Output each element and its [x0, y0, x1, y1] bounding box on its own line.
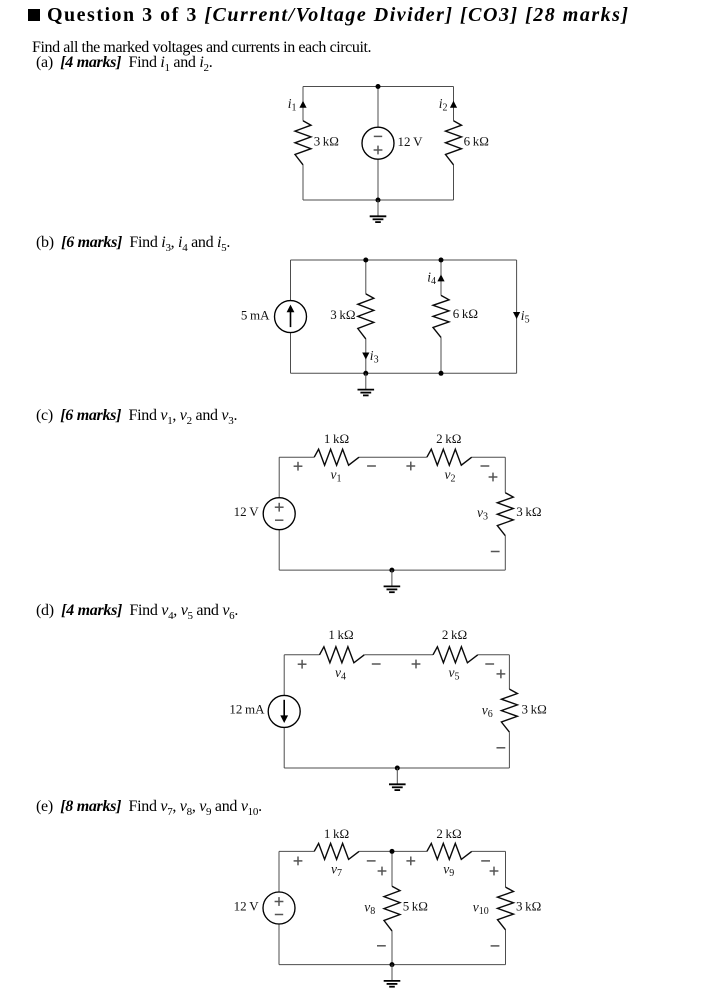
label 3 kOhm (e) [516, 898, 541, 913]
label 1 kOhm (d) [328, 627, 353, 642]
minus v2 [481, 465, 490, 467]
label 1 kOhm (c) [324, 431, 349, 446]
resistor 1 kOhm (e) [314, 843, 359, 859]
minus v1 [367, 465, 376, 467]
resistor 3 kOhm (c) [497, 493, 513, 536]
minus v8 [377, 945, 386, 947]
resistor 2 kOhm (c) [427, 449, 472, 465]
minus v10 [491, 945, 500, 947]
svg-text:6 kΩ: 6 kΩ [453, 306, 478, 321]
label i4 [427, 270, 436, 288]
minus v9 [481, 860, 490, 862]
svg-text:3 kΩ: 3 kΩ [330, 307, 355, 322]
wire bottom (c) [279, 569, 505, 571]
part (c) text [36, 407, 237, 427]
svg-text:v5: v5 [449, 665, 460, 683]
wire bottom (a) [303, 199, 454, 201]
svg-text:i2: i2 [439, 96, 448, 114]
current arrow i2 [450, 101, 457, 108]
plus v3 [489, 473, 498, 482]
resistor 6 kOhm (b) [433, 295, 449, 337]
svg-text:2 kΩ: 2 kΩ [436, 431, 461, 446]
label 2 kOhm (c) [436, 431, 461, 446]
svg-text:12 mA: 12 mA [229, 701, 265, 716]
label v9 [443, 861, 454, 879]
current arrow i1 [299, 101, 306, 108]
svg-text:v10: v10 [473, 899, 489, 917]
wire right (d) [508, 655, 510, 768]
label 3 kOhm (b) [330, 307, 355, 322]
wire branch 3k (b) [365, 260, 367, 373]
label 6 kOhm (b) [453, 306, 478, 321]
label i2 [439, 96, 448, 114]
label 3 kOhm (d) [522, 701, 547, 716]
svg-text:i5: i5 [521, 308, 530, 326]
label v4 [335, 665, 346, 683]
label 1 kOhm (e) [324, 826, 349, 841]
plus v2 [406, 462, 415, 471]
node bottom right branch (b) [439, 371, 444, 376]
part (a) text [36, 54, 212, 74]
svg-text:1 kΩ: 1 kΩ [324, 826, 349, 841]
svg-text:2 kΩ: 2 kΩ [442, 627, 467, 642]
svg-text:12 V: 12 V [398, 134, 424, 149]
intro line [32, 39, 371, 57]
label 6 kOhm (a) [464, 133, 489, 148]
resistor 1 kOhm (d) [320, 647, 365, 663]
resistor 3 kOhm (a) [295, 121, 311, 165]
svg-text:i1: i1 [288, 96, 297, 114]
plus v1 [294, 462, 303, 471]
wire right (e) [505, 851, 507, 964]
label i5 [521, 308, 530, 326]
node bottom left branch (b) [363, 371, 368, 376]
ground (d) [389, 768, 406, 790]
resistor 2 kOhm (e) [427, 843, 472, 859]
wire top (a) [303, 86, 454, 88]
svg-text:2 kΩ: 2 kΩ [436, 826, 461, 841]
label v3 [477, 505, 488, 523]
minus v3 [491, 551, 500, 553]
node top right branch (b) [439, 258, 444, 263]
svg-text:3 kΩ: 3 kΩ [516, 504, 541, 519]
label v8 [364, 899, 375, 917]
part (b) text [36, 234, 230, 254]
node top (a) [376, 84, 381, 89]
svg-text:v6: v6 [482, 702, 493, 720]
svg-text:v7: v7 [331, 861, 342, 879]
resistor 3 kOhm (b) [358, 294, 374, 339]
voltage source 12 V (a) [362, 127, 394, 159]
wire left (b) [290, 260, 292, 373]
wire top (d) [284, 654, 509, 656]
resistor 3 kOhm (e) [498, 887, 514, 930]
part (d) text [36, 602, 238, 622]
wire bottom (d) [284, 767, 509, 769]
wire bottom (b) [291, 372, 517, 374]
svg-text:i4: i4 [427, 270, 436, 288]
svg-text:1 kΩ: 1 kΩ [324, 431, 349, 446]
resistor 5 kOhm (e) [384, 886, 400, 931]
wire bottom (e) [279, 964, 506, 966]
svg-text:v4: v4 [335, 665, 346, 683]
label v1 [331, 467, 342, 485]
wire left (d) [283, 655, 285, 768]
node bottom (d) [395, 766, 400, 771]
label 12 V (a) [398, 134, 424, 149]
label v6 [482, 702, 493, 720]
resistor 3 kOhm (d) [501, 689, 517, 732]
wire right (a) [453, 87, 455, 201]
label 12 V (c) [234, 504, 260, 519]
label 3 kOhm (a) [314, 133, 339, 148]
svg-text:6 kΩ: 6 kΩ [464, 133, 489, 148]
svg-text:v8: v8 [364, 899, 375, 917]
label 5 mA (b) [241, 308, 270, 323]
svg-text:5 kΩ: 5 kΩ [403, 898, 428, 913]
svg-text:v3: v3 [477, 505, 488, 523]
label 12 V (e) [234, 898, 260, 913]
wire left (a) [302, 87, 304, 201]
label v7 [331, 861, 342, 879]
minus v6 [497, 747, 506, 749]
plus v8 [378, 867, 387, 876]
plus v9 [406, 857, 415, 866]
svg-text:3 kΩ: 3 kΩ [516, 898, 541, 913]
label 2 kOhm (d) [442, 627, 467, 642]
label v10 [473, 899, 489, 917]
resistor 1 kOhm (c) [314, 449, 359, 465]
label 12 mA (d) [229, 701, 265, 716]
wire top (e) [279, 850, 506, 852]
current arrow i5 [513, 312, 520, 319]
ground (a) [370, 200, 387, 222]
svg-text:v1: v1 [331, 467, 342, 485]
node bottom (c) [389, 568, 394, 573]
svg-text:12 V: 12 V [234, 898, 260, 913]
ground (c) [384, 570, 401, 592]
ground (b) [358, 373, 375, 395]
plus v5 [412, 660, 421, 669]
label v2 [445, 467, 456, 485]
svg-text:3 kΩ: 3 kΩ [314, 133, 339, 148]
resistor 6 kOhm (a) [446, 121, 462, 165]
plus v10 [490, 867, 499, 876]
current source 12 mA (d) [268, 695, 300, 727]
svg-text:12 V: 12 V [234, 504, 260, 519]
minus v7 [367, 860, 376, 862]
node bottom middle (e) [390, 962, 395, 967]
svg-text:i3: i3 [370, 348, 379, 366]
wire left (e) [278, 851, 280, 964]
current arrow i4 [437, 274, 444, 281]
wire top (b) [291, 259, 517, 261]
plus v7 [294, 857, 303, 866]
minus v5 [485, 663, 494, 665]
wire middle branch (a) [377, 87, 379, 201]
heading [28, 4, 630, 27]
label i3 [370, 348, 379, 366]
current arrow i3 [362, 353, 369, 360]
wire left (c) [278, 457, 280, 570]
minus v4 [372, 663, 381, 665]
wire right (c) [504, 457, 506, 570]
node bottom (a) [376, 198, 381, 203]
part (e) text [36, 798, 262, 818]
svg-text:1 kΩ: 1 kΩ [328, 627, 353, 642]
wire right (b) [516, 260, 518, 373]
current source 5 mA (b) [275, 301, 307, 333]
wire middle branch (e) [391, 851, 393, 964]
svg-text:3 kΩ: 3 kΩ [522, 701, 547, 716]
ground (e) [384, 965, 401, 987]
label 2 kOhm (e) [436, 826, 461, 841]
voltage source 12 V (c) [263, 498, 295, 530]
voltage source 12 V (e) [263, 892, 295, 924]
node top left branch (b) [363, 258, 368, 263]
plus v4 [298, 660, 307, 669]
wire top (c) [279, 456, 505, 458]
svg-text:v9: v9 [443, 861, 454, 879]
node top middle (e) [390, 849, 395, 854]
label v5 [449, 665, 460, 683]
label i1 [288, 96, 297, 114]
resistor 2 kOhm (d) [433, 647, 478, 663]
label 5 kOhm (e) [403, 898, 428, 913]
svg-text:5 mA: 5 mA [241, 308, 270, 323]
wire branch 6k (b) [440, 260, 442, 373]
plus v6 [497, 670, 506, 679]
label 3 kOhm (c) [516, 504, 541, 519]
svg-text:v2: v2 [445, 467, 456, 485]
